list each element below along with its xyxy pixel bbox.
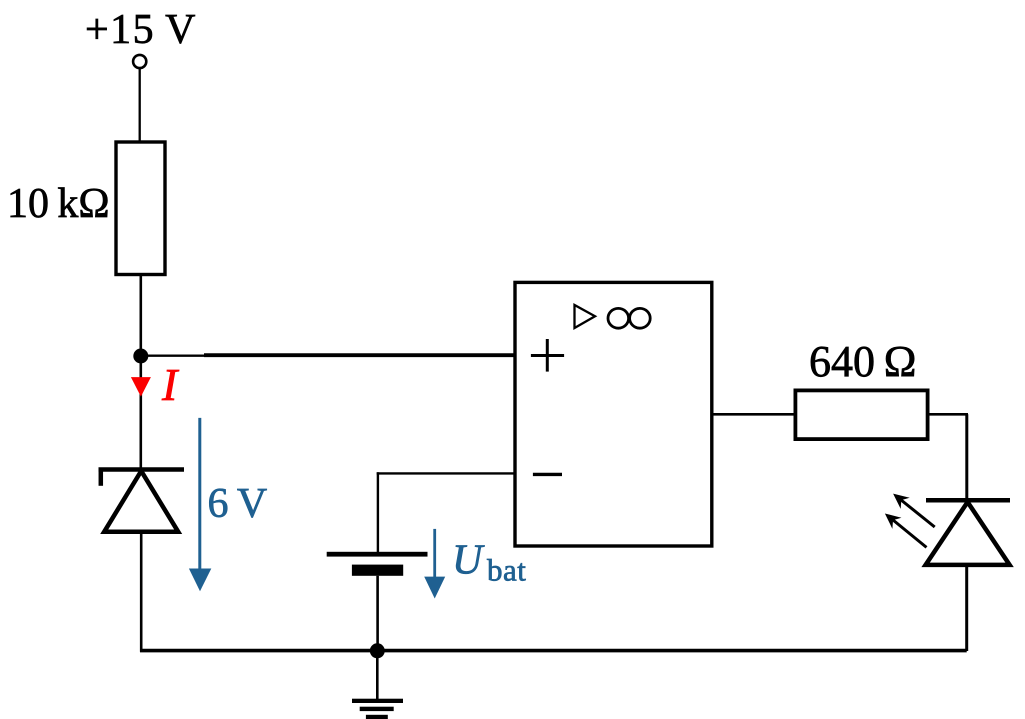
svg-text:I: I xyxy=(161,359,180,410)
svg-text:U: U xyxy=(452,538,485,584)
svg-text:+15 V: +15 V xyxy=(85,7,197,53)
svg-text:10 kΩ: 10 kΩ xyxy=(7,181,110,227)
svg-text:640 Ω: 640 Ω xyxy=(809,337,917,386)
svg-text:6 V: 6 V xyxy=(208,481,268,527)
svg-text:bat: bat xyxy=(487,553,526,588)
